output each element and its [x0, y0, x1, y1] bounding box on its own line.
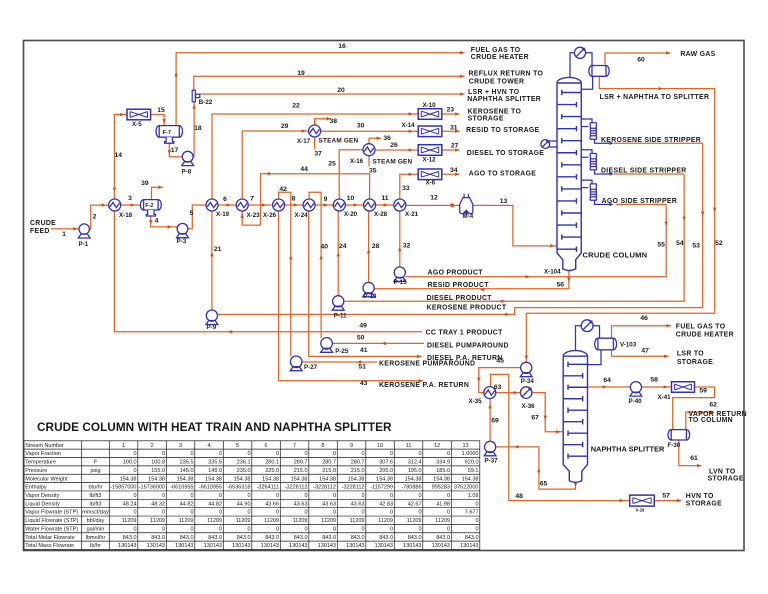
- svg-text:0: 0: [247, 510, 250, 516]
- svg-text:50: 50: [357, 335, 365, 342]
- arrow stream 52 down: [713, 208, 717, 212]
- svg-text:44.90: 44.90: [237, 501, 251, 507]
- svg-text:23: 23: [447, 106, 455, 113]
- svg-text:0: 0: [276, 451, 279, 457]
- svg-text:KEROSENE P.A. RETURN: KEROSENE P.A. RETURN: [379, 382, 469, 389]
- svg-text:0: 0: [333, 493, 336, 499]
- svg-text:215.0: 215.0: [294, 468, 308, 474]
- arrow stream 7: [262, 203, 266, 207]
- arrow kerosene stripper bottoms: [610, 142, 614, 145]
- wire splitter condenser to V-103: [593, 326, 600, 339]
- wire diesel stripper bottoms: [614, 173, 685, 175]
- wire stream 51 kerosene pumparound: [302, 361, 377, 363]
- heat exchanger X-18: [109, 199, 121, 211]
- svg-text:11209: 11209: [264, 518, 279, 524]
- svg-text:48.24: 48.24: [123, 501, 137, 507]
- arrow diesel product left: [499, 300, 503, 304]
- steam generator X-17: [309, 125, 321, 137]
- arrow stream 39: [158, 186, 162, 190]
- svg-text:P-13: P-13: [363, 293, 377, 300]
- svg-text:843.0: 843.0: [465, 535, 479, 541]
- wire stream 43 kerosene p.a. return: [279, 211, 424, 381]
- cooler X-36: [520, 387, 532, 399]
- arrow stream 16: [460, 51, 464, 55]
- svg-text:-3228112: -3228112: [285, 485, 308, 491]
- svg-text:DIESEL SIDE STRIPPER: DIESEL SIDE STRIPPER: [601, 168, 687, 175]
- wire kerosene stripper bottoms: [595, 139, 613, 143]
- svg-text:M-4: M-4: [463, 213, 474, 220]
- svg-text:154.38: 154.38: [234, 476, 251, 482]
- arrow stream 1: [73, 227, 77, 231]
- wire stream 23: [442, 113, 460, 115]
- svg-text:X-35: X-35: [469, 398, 483, 405]
- svg-text:7.677: 7.677: [465, 510, 479, 516]
- svg-text:X-10: X-10: [423, 102, 437, 109]
- valve X-5: [127, 109, 151, 120]
- arrow stream 32 up: [398, 247, 402, 251]
- wire stream 46 fuel gas: [612, 326, 672, 339]
- svg-text:STEAM GEN: STEAM GEN: [373, 159, 413, 166]
- svg-text:7: 7: [250, 196, 254, 203]
- svg-text:17: 17: [171, 147, 179, 154]
- svg-text:LSR + HVN TO: LSR + HVN TO: [468, 89, 520, 96]
- svg-text:0: 0: [361, 526, 364, 532]
- arrow stream 10: [354, 203, 358, 207]
- wire stream 61 lvn: [679, 440, 702, 466]
- svg-text:5: 5: [190, 210, 194, 217]
- arrow into X-35 feed: [477, 378, 481, 382]
- svg-text:Vapor Fraction: Vapor Fraction: [25, 451, 61, 457]
- svg-text:0: 0: [162, 493, 165, 499]
- arrow stream 40 up: [319, 255, 323, 259]
- svg-text:0: 0: [361, 451, 364, 457]
- svg-text:154.38: 154.38: [405, 476, 422, 482]
- wire stream 5: [188, 205, 206, 229]
- svg-text:0: 0: [390, 510, 393, 516]
- arrow stream 23: [455, 112, 459, 116]
- svg-text:X-23: X-23: [247, 212, 261, 219]
- svg-text:154.38: 154.38: [262, 476, 279, 482]
- svg-text:42.67: 42.67: [408, 501, 422, 507]
- svg-text:235.5: 235.5: [180, 460, 194, 466]
- svg-text:843.0: 843.0: [237, 535, 251, 541]
- svg-text:CRUDE COLUMN WITH HEAT TRAIN A: CRUDE COLUMN WITH HEAT TRAIN AND NAPHTHA…: [37, 421, 392, 434]
- svg-text:59: 59: [699, 387, 707, 394]
- svg-text:NAPHTHA SPLITTER: NAPHTHA SPLITTER: [591, 445, 665, 454]
- wire diesel product / stream 54: [344, 174, 684, 301]
- svg-text:X-104: X-104: [544, 269, 561, 276]
- arrow stream 9: [324, 203, 328, 207]
- svg-text:145.0: 145.0: [208, 468, 222, 474]
- wire raw gas / stream 60: [605, 53, 671, 65]
- svg-text:10: 10: [377, 443, 383, 449]
- wire stream 37 water in: [314, 137, 316, 149]
- svg-text:843.0: 843.0: [351, 535, 365, 541]
- pump P-15: [394, 267, 406, 282]
- svg-text:20: 20: [337, 87, 345, 94]
- arrow stream 19: [460, 75, 464, 79]
- wire stream 19 reflux return: [194, 76, 465, 90]
- svg-text:130143: 130143: [403, 543, 421, 549]
- svg-text:39: 39: [141, 180, 149, 187]
- svg-text:11209: 11209: [150, 518, 165, 524]
- svg-text:-3264111: -3264111: [257, 485, 279, 491]
- svg-text:LSR TO: LSR TO: [677, 351, 704, 358]
- drum F-30: [668, 430, 690, 440]
- svg-text:0: 0: [418, 493, 421, 499]
- svg-text:P-3: P-3: [177, 238, 187, 245]
- svg-text:FEED: FEED: [30, 228, 50, 235]
- svg-text:P-25: P-25: [335, 348, 349, 355]
- svg-text:RESID TO STORAGE: RESID TO STORAGE: [466, 127, 539, 134]
- svg-text:0: 0: [133, 526, 136, 532]
- svg-text:0: 0: [304, 510, 307, 516]
- svg-text:43.63: 43.63: [351, 501, 365, 507]
- svg-text:36: 36: [383, 135, 391, 142]
- svg-text:43: 43: [360, 380, 368, 387]
- svg-text:100.0: 100.0: [123, 460, 137, 466]
- wire diesel stripper draw line: [581, 156, 588, 158]
- svg-text:X-41: X-41: [658, 394, 672, 401]
- svg-text:DIESEL PUMPAROUND: DIESEL PUMPAROUND: [427, 343, 509, 350]
- svg-text:154.38: 154.38: [148, 476, 165, 482]
- svg-text:Vapor Density: Vapor Density: [25, 493, 59, 499]
- arrow stream 65 down: [574, 483, 578, 487]
- svg-text:AGO TO STORAGE: AGO TO STORAGE: [469, 171, 536, 178]
- wire stream 10: [345, 204, 364, 206]
- arrow raw gas: [666, 51, 670, 55]
- svg-text:51: 51: [358, 364, 366, 371]
- wire stream 27: [442, 149, 460, 151]
- svg-text:gal/min: gal/min: [87, 526, 105, 532]
- wire V-103 reflux to splitter: [588, 350, 602, 365]
- arrow stream 4 right: [168, 225, 172, 229]
- svg-text:RESID PRODUCT: RESID PRODUCT: [428, 282, 490, 289]
- svg-text:P-37: P-37: [485, 457, 499, 464]
- svg-text:52: 52: [715, 240, 723, 247]
- steam generator X-16: [363, 144, 375, 156]
- svg-text:11209: 11209: [236, 518, 251, 524]
- svg-text:312.4: 312.4: [408, 460, 422, 466]
- svg-text:0: 0: [333, 451, 336, 457]
- pump P-3: [177, 223, 189, 237]
- svg-text:X-24: X-24: [295, 212, 309, 219]
- svg-text:34: 34: [450, 167, 458, 174]
- arrow into P-34: [525, 356, 529, 360]
- svg-text:48: 48: [515, 493, 523, 500]
- arrow stream 30 into X-14: [409, 130, 413, 134]
- svg-text:0: 0: [133, 510, 136, 516]
- valve X-29: [630, 495, 655, 506]
- wire ago stripper bottoms: [616, 203, 666, 205]
- svg-text:0: 0: [475, 518, 478, 524]
- valve X-6: [418, 169, 442, 180]
- svg-text:130143: 130143: [432, 543, 450, 549]
- wire stream 50 diesel pumparound: [332, 342, 424, 344]
- arrow stream 38: [327, 117, 331, 121]
- svg-text:843.0: 843.0: [436, 535, 450, 541]
- svg-text:14: 14: [115, 152, 123, 159]
- svg-text:13: 13: [462, 443, 468, 449]
- svg-text:225.0: 225.0: [265, 468, 279, 474]
- svg-text:3: 3: [179, 443, 182, 449]
- svg-text:54: 54: [676, 240, 684, 247]
- svg-text:44.82: 44.82: [208, 501, 222, 507]
- svg-text:7: 7: [293, 443, 296, 449]
- svg-text:195.0: 195.0: [408, 468, 422, 474]
- svg-text:11209: 11209: [378, 518, 393, 524]
- heat exchanger X-20: [333, 199, 345, 211]
- svg-text:280.7: 280.7: [322, 460, 336, 466]
- svg-text:33: 33: [402, 185, 410, 192]
- wire stream 47 lsr: [612, 350, 669, 357]
- svg-text:280.7: 280.7: [294, 460, 308, 466]
- svg-text:29: 29: [281, 123, 289, 130]
- svg-text:38: 38: [330, 118, 338, 125]
- arrow stream 41: [417, 355, 421, 359]
- svg-text:0: 0: [219, 526, 222, 532]
- svg-text:Total Mass Flowrate: Total Mass Flowrate: [25, 543, 74, 549]
- svg-text:0: 0: [276, 493, 279, 499]
- svg-text:44: 44: [300, 166, 308, 173]
- svg-text:42.83: 42.83: [379, 501, 393, 507]
- svg-text:130143: 130143: [118, 543, 136, 549]
- svg-text:0: 0: [447, 526, 450, 532]
- wire stream 24: [337, 211, 339, 296]
- svg-text:11209: 11209: [350, 518, 365, 524]
- svg-text:0: 0: [390, 526, 393, 532]
- svg-text:130143: 130143: [232, 543, 250, 549]
- wire stream 8: [285, 204, 304, 206]
- svg-text:Total Molar Flowrate: Total Molar Flowrate: [25, 535, 75, 541]
- heat exchanger X-23: [236, 199, 248, 211]
- svg-text:0: 0: [162, 451, 165, 457]
- pump P-9: [206, 310, 218, 325]
- svg-text:24: 24: [339, 243, 347, 250]
- svg-text:145.0: 145.0: [180, 468, 194, 474]
- svg-text:Liquid Density: Liquid Density: [25, 501, 60, 507]
- arrow stream 33 into X-6: [409, 173, 413, 177]
- svg-text:P-9: P-9: [207, 324, 217, 331]
- diesel side stripper vessel: [590, 154, 596, 170]
- arrow stream 18 up: [192, 104, 196, 108]
- naphtha splitter vessel: [563, 351, 587, 483]
- svg-text:FUEL GAS TO: FUEL GAS TO: [676, 323, 726, 330]
- svg-text:AGO SIDE STRIPPER: AGO SIDE STRIPPER: [602, 198, 678, 205]
- svg-text:62: 62: [709, 402, 717, 409]
- arrow stream 49 left: [228, 330, 232, 334]
- svg-text:X-26: X-26: [263, 212, 277, 219]
- svg-text:Pressure: Pressure: [25, 468, 47, 474]
- svg-text:X-5: X-5: [132, 121, 142, 128]
- wire crude column pumparound stub lower: [549, 146, 557, 148]
- svg-text:0: 0: [247, 526, 250, 532]
- svg-text:X-6: X-6: [426, 179, 436, 186]
- arrow stream 6: [227, 203, 231, 207]
- svg-text:11209: 11209: [293, 518, 308, 524]
- svg-text:185.0: 185.0: [436, 468, 450, 474]
- arrow stream 51 left: [357, 360, 361, 364]
- pumparound cooler on crude column: [541, 140, 550, 149]
- svg-text:11209: 11209: [122, 518, 137, 524]
- svg-text:12: 12: [430, 195, 438, 202]
- pump P-13: [363, 282, 375, 297]
- arrow diesel stripper bottoms: [610, 172, 614, 175]
- svg-text:0: 0: [133, 468, 136, 474]
- svg-text:lb/hr: lb/hr: [90, 543, 101, 549]
- svg-text:843.0: 843.0: [123, 535, 137, 541]
- accumulator V-103: [595, 338, 617, 350]
- svg-text:0: 0: [133, 493, 136, 499]
- junction dot stream 12: [450, 203, 454, 207]
- naphtha splitter condenser: [581, 320, 593, 332]
- pump P-27: [290, 356, 302, 371]
- wire stream 67 to naphtha splitter: [532, 393, 563, 432]
- svg-text:2: 2: [151, 443, 154, 449]
- svg-text:P-8: P-8: [182, 168, 192, 175]
- svg-text:X-18: X-18: [119, 212, 133, 219]
- svg-text:-780886: -780886: [401, 485, 421, 491]
- svg-text:LVN TO: LVN TO: [709, 468, 736, 475]
- svg-text:8: 8: [292, 195, 296, 202]
- svg-text:9: 9: [350, 443, 353, 449]
- svg-text:V-103: V-103: [620, 342, 637, 349]
- svg-text:X-16: X-16: [350, 158, 364, 165]
- arrow stream 54 down: [682, 217, 686, 221]
- svg-text:235.0: 235.0: [237, 468, 251, 474]
- wire stream 2: [89, 205, 108, 229]
- svg-text:bbl/day: bbl/day: [87, 518, 105, 524]
- svg-text:STEAM GEN: STEAM GEN: [319, 137, 359, 144]
- wire stream 1 crude feed: [51, 228, 79, 230]
- svg-text:X-17: X-17: [297, 138, 311, 145]
- fired heater F-2: [140, 200, 161, 216]
- kerosene side stripper vessel: [590, 123, 596, 139]
- svg-text:NAPHTHA SPLITTER: NAPHTHA SPLITTER: [467, 96, 541, 103]
- tee B-22: [192, 90, 200, 102]
- svg-text:KEROSENE TO: KEROSENE TO: [468, 108, 522, 115]
- svg-text:28: 28: [372, 243, 380, 250]
- svg-text:155.0: 155.0: [151, 468, 165, 474]
- wire stream 41 diesel p.a. return: [309, 211, 422, 356]
- svg-text:32: 32: [403, 242, 411, 249]
- wire kerosene stripper vapor line: [581, 119, 592, 123]
- wire stream 58: [641, 386, 670, 388]
- arrow stream 62: [710, 410, 714, 414]
- svg-text:154.38: 154.38: [319, 476, 336, 482]
- svg-text:0: 0: [361, 493, 364, 499]
- svg-text:236.1: 236.1: [237, 460, 251, 466]
- wire stream 59: [673, 387, 715, 430]
- arrow stream 48 into X-29: [620, 499, 624, 503]
- svg-text:37622000: 37622000: [454, 485, 478, 491]
- pump P-8: [182, 151, 194, 165]
- svg-text:0: 0: [475, 501, 478, 507]
- wire stream 63 X-35 to X-36: [496, 392, 521, 394]
- svg-text:0: 0: [447, 451, 450, 457]
- svg-text:-3228112: -3228112: [313, 485, 336, 491]
- wire diesel stripper bottoms: [595, 170, 613, 174]
- svg-text:307.6: 307.6: [379, 460, 393, 466]
- arrow stream 14 down: [113, 188, 117, 192]
- svg-text:Liquid Flowrate (STP): Liquid Flowrate (STP): [25, 518, 78, 524]
- svg-text:P-34: P-34: [521, 378, 535, 385]
- wire stream 65 splitter bottoms: [496, 447, 576, 489]
- arrow stream 61: [697, 464, 701, 468]
- svg-text:46: 46: [640, 315, 648, 322]
- svg-text:41: 41: [360, 347, 368, 354]
- wire stream 7: [248, 204, 273, 206]
- arrow stream 24 up: [336, 252, 340, 256]
- arrow stream 56 down: [567, 278, 571, 282]
- svg-text:mmscf/day: mmscf/day: [82, 510, 109, 516]
- arrow stream 42 up: [289, 255, 293, 259]
- svg-text:lb/ft3: lb/ft3: [90, 501, 102, 507]
- svg-text:F-2: F-2: [145, 203, 153, 209]
- svg-text:3: 3: [128, 195, 132, 202]
- svg-text:0: 0: [333, 526, 336, 532]
- svg-text:1.09: 1.09: [468, 493, 479, 499]
- pump P-34: [520, 362, 532, 377]
- valve X-14: [418, 126, 442, 137]
- svg-text:KEROSENE PUMPAROUND: KEROSENE PUMPAROUND: [379, 360, 475, 367]
- svg-text:0: 0: [304, 526, 307, 532]
- svg-text:P-40: P-40: [629, 398, 643, 405]
- wire stream 22: [212, 114, 418, 199]
- svg-text:0: 0: [390, 493, 393, 499]
- wire reflux accumulator to column: [581, 76, 592, 89]
- svg-text:X-14: X-14: [402, 122, 416, 129]
- heat exchanger X-26: [273, 199, 285, 211]
- arrow stream 65 into P-37: [514, 445, 518, 449]
- svg-text:334.9: 334.9: [436, 460, 450, 466]
- arrow stream 55 down: [664, 222, 668, 226]
- svg-text:Vapor Flowrate (STP): Vapor Flowrate (STP): [25, 510, 78, 516]
- wire stream 62 vapor return: [686, 412, 714, 430]
- wire stream 13 to crude column: [473, 205, 557, 246]
- table grid: [24, 441, 480, 550]
- svg-text:130143: 130143: [147, 543, 165, 549]
- arrow stream 2: [102, 203, 106, 207]
- wire crude column pumparound stub upper: [549, 140, 557, 142]
- svg-text:620.0: 620.0: [465, 460, 479, 466]
- arrow stream 44 up into X-23: [240, 214, 244, 218]
- wire ago product / stream 55: [405, 204, 666, 276]
- arrow stream 69 up: [488, 404, 492, 408]
- svg-text:CRUDE COLUMN: CRUDE COLUMN: [583, 250, 648, 259]
- svg-text:41.98: 41.98: [436, 501, 450, 507]
- svg-text:10: 10: [347, 195, 355, 202]
- svg-text:843.0: 843.0: [265, 535, 279, 541]
- svg-text:154.38: 154.38: [462, 476, 479, 482]
- wire stream 6: [218, 204, 236, 206]
- arrow on lsr+naphtha line: [659, 87, 663, 91]
- svg-text:843.0: 843.0: [322, 535, 336, 541]
- svg-text:154.38: 154.38: [376, 476, 393, 482]
- svg-text:STORAGE: STORAGE: [677, 359, 713, 366]
- wire stream 39 flash vapor: [152, 187, 163, 199]
- svg-text:130143: 130143: [318, 543, 336, 549]
- arrow stream 58 into X-41: [664, 385, 668, 389]
- wire stream 32: [399, 211, 401, 267]
- svg-text:53: 53: [692, 243, 700, 250]
- wire crude overhead to condenser: [570, 53, 574, 78]
- svg-text:AGO PRODUCT: AGO PRODUCT: [428, 269, 484, 276]
- svg-text:1: 1: [62, 231, 66, 238]
- svg-text:43.63: 43.63: [322, 501, 336, 507]
- svg-text:26: 26: [390, 142, 398, 149]
- wire stream 44 pumparound loop to X-23: [242, 174, 369, 225]
